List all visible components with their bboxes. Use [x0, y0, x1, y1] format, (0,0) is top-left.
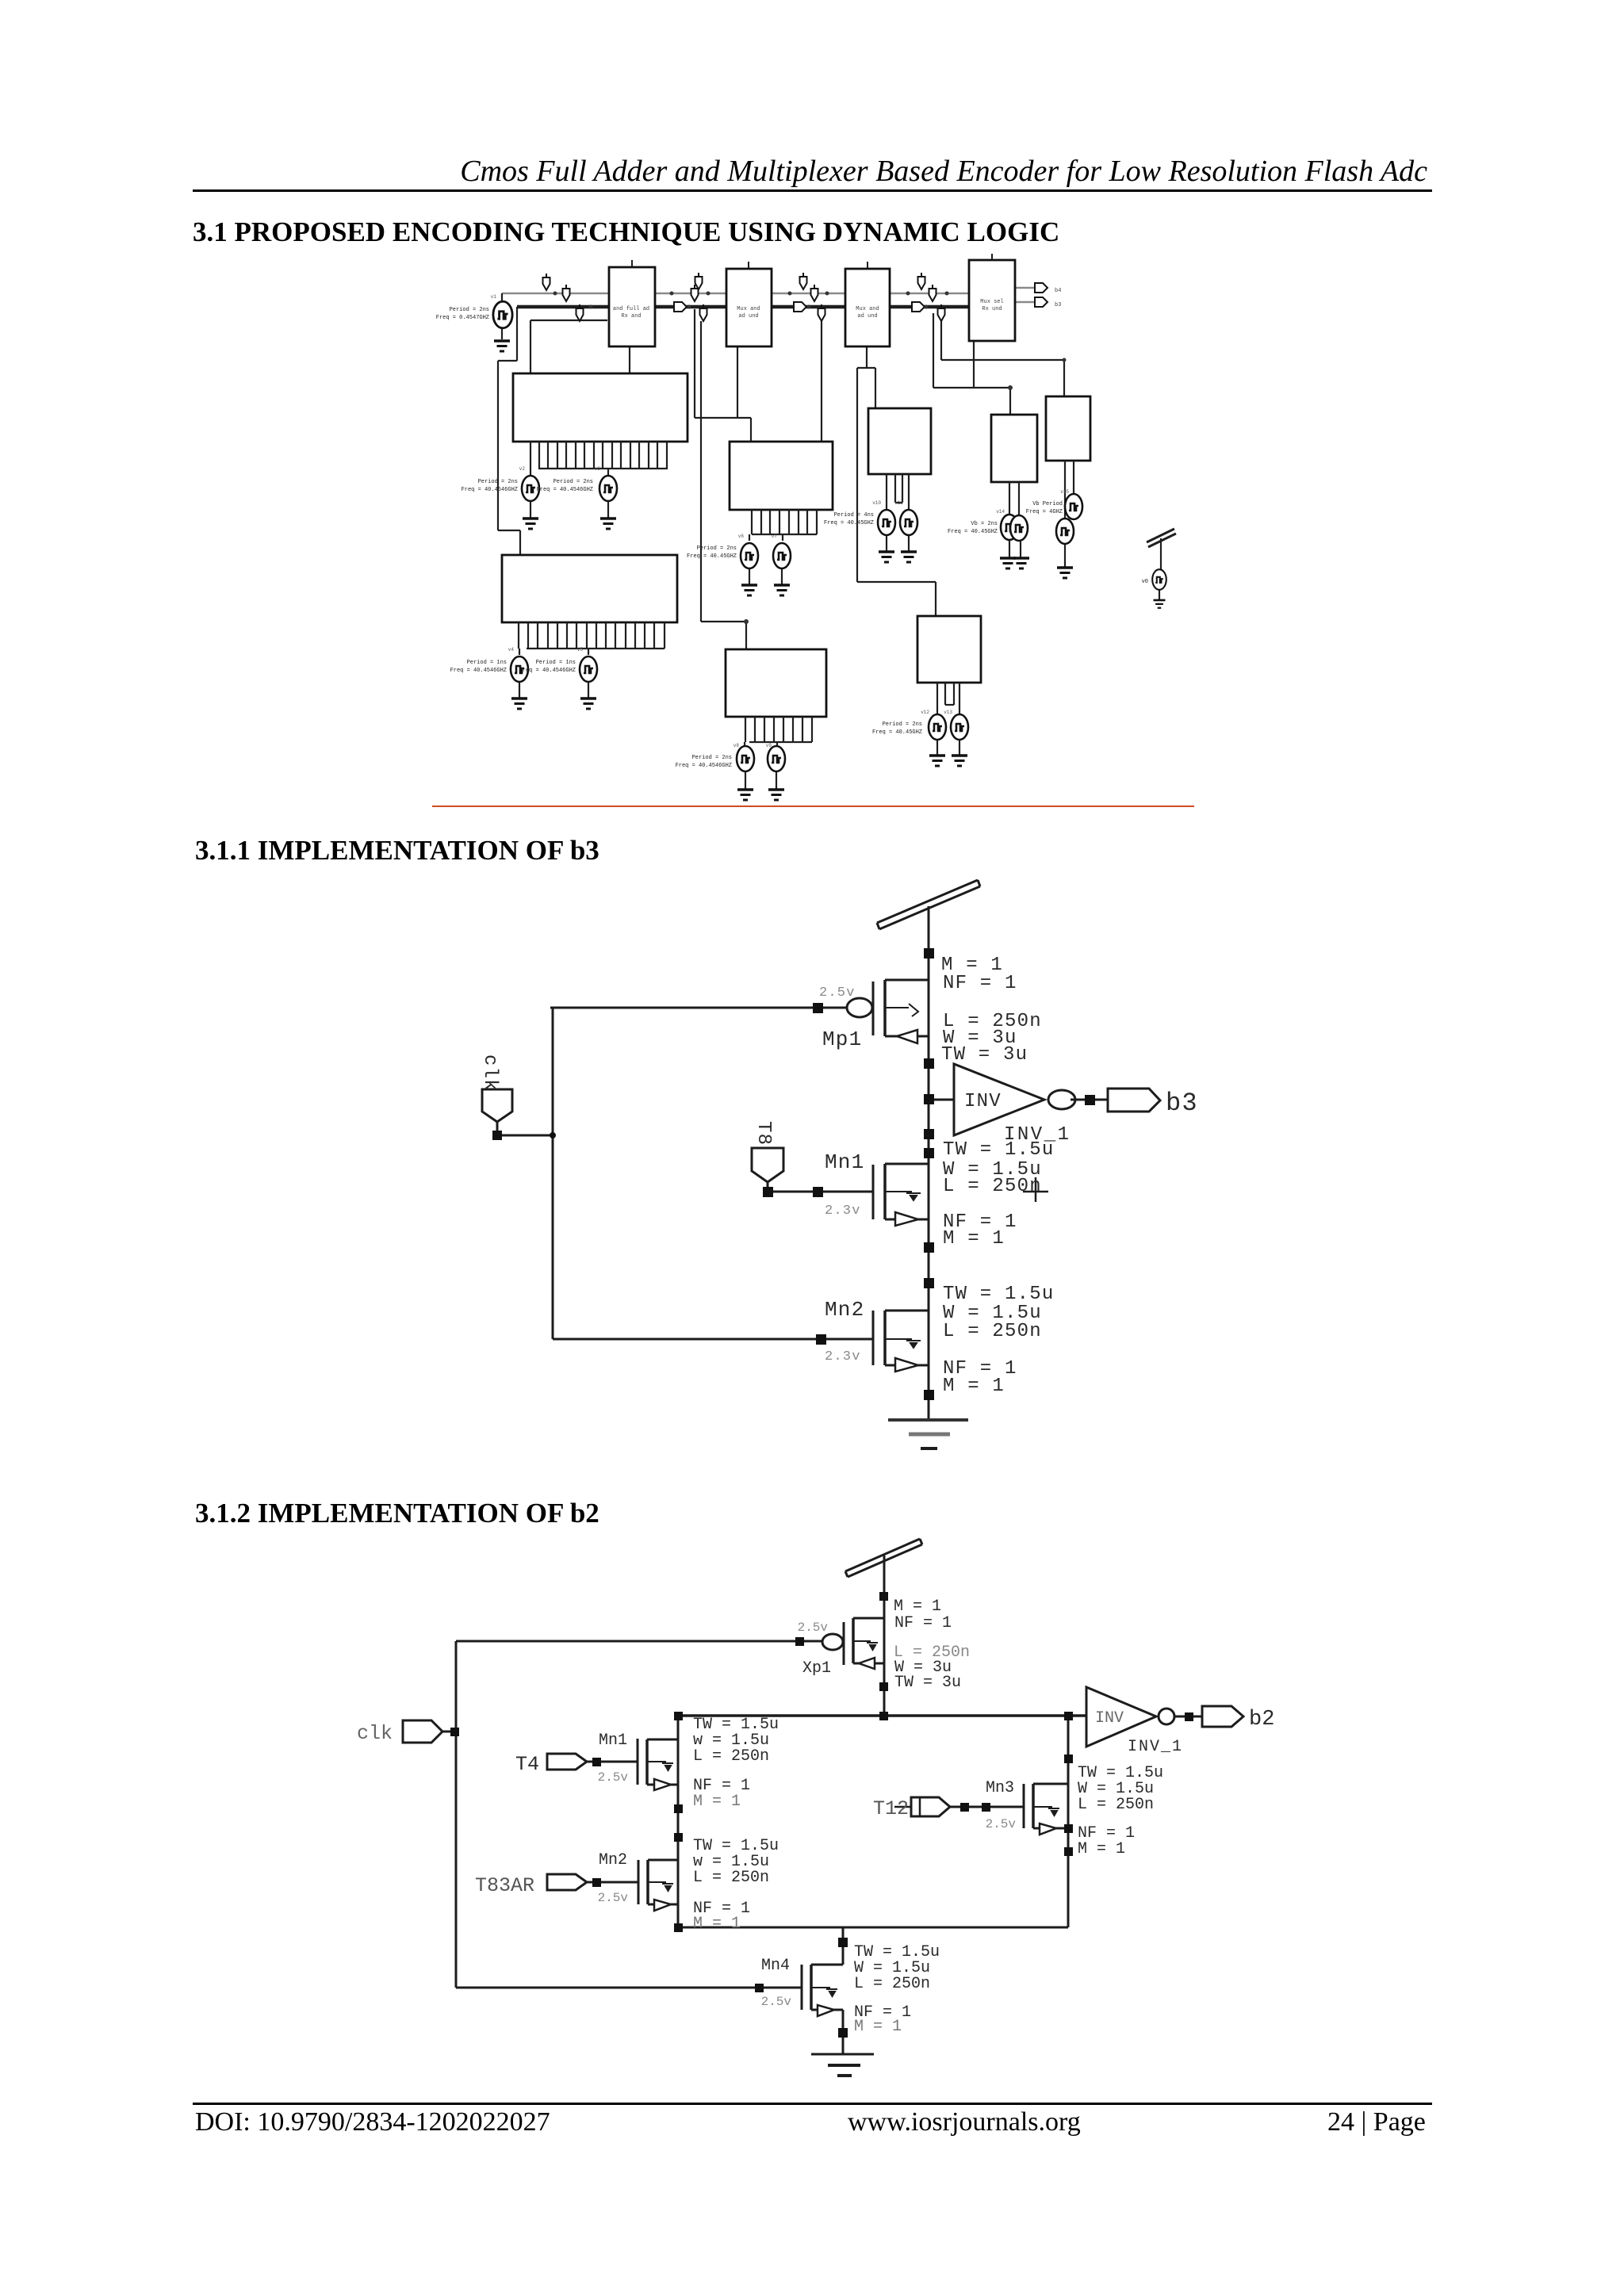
svg-text:M = 1: M = 1: [693, 1915, 741, 1933]
svg-text:v6: v6: [738, 534, 745, 539]
svg-text:2.5v: 2.5v: [761, 1995, 792, 2009]
svg-text:2.3v: 2.3v: [825, 1349, 861, 1364]
svg-text:b4: b4: [1055, 288, 1061, 294]
svg-text:Freq = 40.45GHZ: Freq = 40.45GHZ: [824, 520, 874, 526]
svg-text:Freq = 40.45GHZ: Freq = 40.45GHZ: [872, 729, 922, 736]
svg-text:L = 250n: L = 250n: [693, 1869, 769, 1887]
svg-text:Mn2: Mn2: [599, 1851, 627, 1869]
svg-text:Vb = 2ns: Vb = 2ns: [971, 521, 998, 527]
svg-text:TW = 3u: TW = 3u: [941, 1044, 1028, 1066]
svg-text:b2: b2: [1249, 1708, 1274, 1732]
svg-text:TW = 1.5u: TW = 1.5u: [943, 1284, 1054, 1305]
svg-text:Period = 2ns: Period = 2ns: [883, 721, 922, 728]
svg-text:v10: v10: [872, 500, 881, 506]
svg-text:v1: v1: [491, 294, 497, 300]
svg-text:Period = 2ns: Period = 2ns: [450, 307, 489, 313]
svg-text:Mn1: Mn1: [599, 1732, 627, 1750]
svg-text:Vb Period: Vb Period: [1032, 501, 1063, 507]
svg-text:Freq = 40.45GHZ: Freq = 40.45GHZ: [687, 553, 737, 560]
svg-text:INV_1: INV_1: [1128, 1738, 1183, 1756]
svg-text:T83AR: T83AR: [475, 1874, 534, 1897]
svg-text:Xp1: Xp1: [802, 1659, 831, 1678]
svg-text:Mn2: Mn2: [825, 1298, 864, 1322]
svg-text:v2: v2: [519, 466, 526, 472]
svg-text:2.5v: 2.5v: [598, 1891, 629, 1905]
svg-text:Period = 2ns: Period = 2ns: [478, 479, 518, 485]
svg-text:Period = 2ns: Period = 2ns: [697, 545, 737, 552]
svg-text:T8: T8: [753, 1121, 774, 1146]
svg-text:Freq = 40.45GHZ: Freq = 40.45GHZ: [948, 529, 998, 535]
svg-text:Period = 2ns: Period = 2ns: [692, 755, 732, 761]
svg-text:TW = 3u: TW = 3u: [894, 1674, 961, 1692]
svg-text:NF = 1: NF = 1: [894, 1614, 952, 1632]
svg-text:INV: INV: [1095, 1709, 1124, 1728]
svg-text:v0: v0: [1142, 579, 1148, 585]
svg-text:Freq = 40.4546GHZ: Freq = 40.4546GHZ: [450, 668, 507, 674]
svg-text:ad und: ad und: [738, 313, 758, 320]
svg-text:L = 250n: L = 250n: [854, 1975, 930, 1993]
svg-text:v7: v7: [772, 534, 778, 539]
svg-text:L = 250n: L = 250n: [693, 1747, 769, 1766]
svg-text:2.5v: 2.5v: [819, 985, 856, 1001]
svg-text:b3: b3: [1055, 302, 1061, 308]
svg-text:M = 1: M = 1: [943, 1376, 1005, 1397]
svg-text:L = 250n: L = 250n: [943, 1176, 1042, 1197]
svg-text:and full ad: and full ad: [613, 306, 649, 312]
svg-text:Mn3: Mn3: [986, 1779, 1014, 1797]
svg-text:2.5v: 2.5v: [598, 1770, 629, 1785]
svg-text:v3: v3: [595, 466, 601, 472]
svg-text:M = 1: M = 1: [894, 1598, 941, 1616]
svg-text:TW = 1.5u: TW = 1.5u: [943, 1139, 1054, 1161]
svg-text:Rx and: Rx and: [621, 313, 641, 320]
svg-text:v5: v5: [577, 647, 584, 652]
svg-text:Mux sel: Mux sel: [980, 299, 1003, 305]
svg-text:2.5v: 2.5v: [798, 1621, 829, 1635]
svg-text:Freq = 4GHZ: Freq = 4GHZ: [1026, 509, 1063, 515]
svg-text:T4: T4: [515, 1753, 539, 1776]
svg-text:Period = 2ns: Period = 2ns: [553, 479, 593, 485]
svg-text:Freq = 40.4546GHZ: Freq = 40.4546GHZ: [519, 668, 576, 674]
svg-text:v15: v15: [1060, 489, 1069, 495]
svg-text:Mux and: Mux and: [737, 306, 760, 312]
svg-text:Mp1: Mp1: [822, 1027, 862, 1051]
svg-text:L = 250n: L = 250n: [1078, 1796, 1154, 1814]
svg-text:Mn4: Mn4: [761, 1957, 790, 1975]
svg-text:Freq = 40.4546GHZ: Freq = 40.4546GHZ: [676, 763, 732, 769]
svg-text:2.3v: 2.3v: [825, 1203, 861, 1219]
svg-text:v8: v8: [733, 743, 740, 748]
svg-text:v12: v12: [921, 710, 929, 715]
svg-text:M = 1: M = 1: [693, 1793, 741, 1811]
svg-text:v14: v14: [996, 509, 1005, 515]
svg-text:Period = 1ns: Period = 1ns: [536, 660, 576, 666]
svg-text:v9: v9: [766, 743, 772, 748]
svg-text:v11: v11: [894, 500, 903, 506]
svg-text:v4: v4: [508, 647, 515, 652]
svg-text:Mux and: Mux and: [856, 306, 879, 312]
svg-text:T12: T12: [873, 1797, 909, 1820]
svg-text:M = 1: M = 1: [943, 1228, 1005, 1249]
svg-text:v13: v13: [944, 710, 952, 715]
svg-text:M = 1: M = 1: [1078, 1840, 1125, 1858]
svg-text:2.5v: 2.5v: [986, 1817, 1017, 1831]
svg-text:M = 1: M = 1: [854, 2018, 902, 2036]
svg-text:ad und: ad und: [857, 313, 877, 320]
svg-text:Freq = 0.4547GHZ: Freq = 0.4547GHZ: [436, 315, 489, 321]
svg-text:INV: INV: [964, 1091, 1002, 1112]
svg-text:Period = 4ns: Period = 4ns: [834, 512, 874, 519]
svg-text:Rx und: Rx und: [982, 306, 1002, 312]
svg-text:Freq = 40.4546GHZ: Freq = 40.4546GHZ: [537, 487, 593, 493]
svg-text:clk: clk: [479, 1054, 500, 1092]
svg-text:Freq = 40.4546GHZ: Freq = 40.4546GHZ: [462, 487, 518, 493]
svg-text:Mn1: Mn1: [825, 1150, 864, 1174]
svg-text:clk: clk: [357, 1722, 393, 1745]
svg-text:NF = 1: NF = 1: [943, 973, 1017, 994]
svg-text:Period = 1ns: Period = 1ns: [467, 660, 507, 666]
svg-text:b3: b3: [1166, 1089, 1198, 1118]
svg-text:L = 250n: L = 250n: [943, 1321, 1042, 1342]
